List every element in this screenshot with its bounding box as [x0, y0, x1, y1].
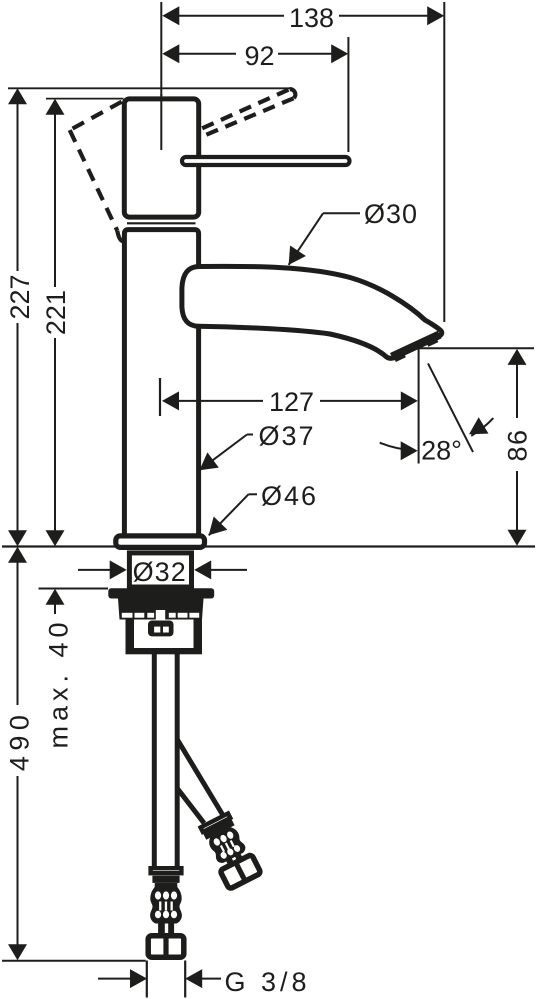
- handle lever rod: [182, 157, 350, 165]
- dimension 127: [160, 378, 418, 417]
- joint line between housing and body: [127, 222, 196, 224]
- leader arrow for 46 diameter: [202, 494, 257, 542]
- dimension 86: [502, 349, 532, 546]
- dashed handle lowered position: [70, 102, 124, 242]
- angle 28 right arc arrow: [464, 417, 493, 442]
- mounting surface line: [2, 545, 535, 547]
- dashed handle raised position: [202, 89, 295, 135]
- bracket legs: [126, 619, 135, 654]
- extension line: G3/8 thread start level: [2, 960, 146, 962]
- svg-text:Ø30: Ø30: [364, 199, 418, 229]
- bracket bottom bar: [126, 648, 203, 654]
- svg-text:Ø32: Ø32: [133, 557, 187, 587]
- extension line: spout outlet vertical: [418, 348, 420, 463]
- angled hose tube: [177, 739, 223, 815]
- mounting washer: [108, 588, 214, 598]
- serrated ring: [122, 613, 199, 618]
- svg-text:490: 490: [5, 710, 35, 772]
- angle 28 left arc arrow: [380, 441, 418, 460]
- extension line: top of raised handle (227): [8, 87, 290, 89]
- dimension G 3/8: [98, 969, 221, 988]
- angle 28 stream line: [428, 363, 473, 452]
- svg-text:221: 221: [41, 290, 71, 335]
- extension line: right of 138 dim: [443, 2, 445, 322]
- angled hose connector: [198, 812, 261, 890]
- extension line: right of 92 dim (handle tip): [347, 37, 349, 152]
- extension line: top of handle housing (221): [46, 98, 124, 100]
- svg-text:127: 127: [269, 387, 314, 417]
- dimension 92: [162, 41, 348, 71]
- dimension 32 diameter: [78, 560, 247, 579]
- dimension 138: [162, 3, 444, 33]
- svg-text:Ø37: Ø37: [258, 421, 315, 451]
- svg-text:max. 40: max. 40: [44, 617, 74, 748]
- dimension max. 40: [39, 589, 109, 749]
- threaded shank: [129, 553, 191, 587]
- centerline inside housing: [160, 94, 162, 150]
- svg-text:227: 227: [5, 274, 35, 319]
- extension line: spout outlet horizontal: [418, 347, 534, 349]
- dimension 221: [41, 99, 71, 547]
- retaining clip: [148, 621, 174, 637]
- extension line: faucet centerline: [160, 2, 162, 96]
- straight hose connector: [148, 868, 184, 958]
- dimension 490: [5, 547, 35, 961]
- spout aerator face: [392, 335, 440, 357]
- center stem: [156, 610, 165, 623]
- dimension 227: [5, 88, 35, 546]
- straight hose tube: [152, 652, 157, 868]
- svg-text:86: 86: [502, 428, 532, 461]
- leader arrow for 37 diameter: [194, 435, 253, 478]
- svg-text:92: 92: [244, 41, 274, 71]
- thread lines G3/8: [146, 961, 148, 998]
- leader arrow for 30 diameter: [281, 213, 360, 270]
- base flange: [116, 536, 205, 548]
- svg-text:G 3/8: G 3/8: [225, 967, 311, 997]
- mounting nut block: [118, 599, 204, 620]
- svg-text:28°: 28°: [421, 435, 462, 465]
- spout: [182, 266, 442, 358]
- handle housing: [124, 99, 198, 217]
- faucet body: [124, 230, 198, 535]
- svg-text:Ø46: Ø46: [261, 481, 318, 511]
- svg-text:138: 138: [289, 3, 334, 33]
